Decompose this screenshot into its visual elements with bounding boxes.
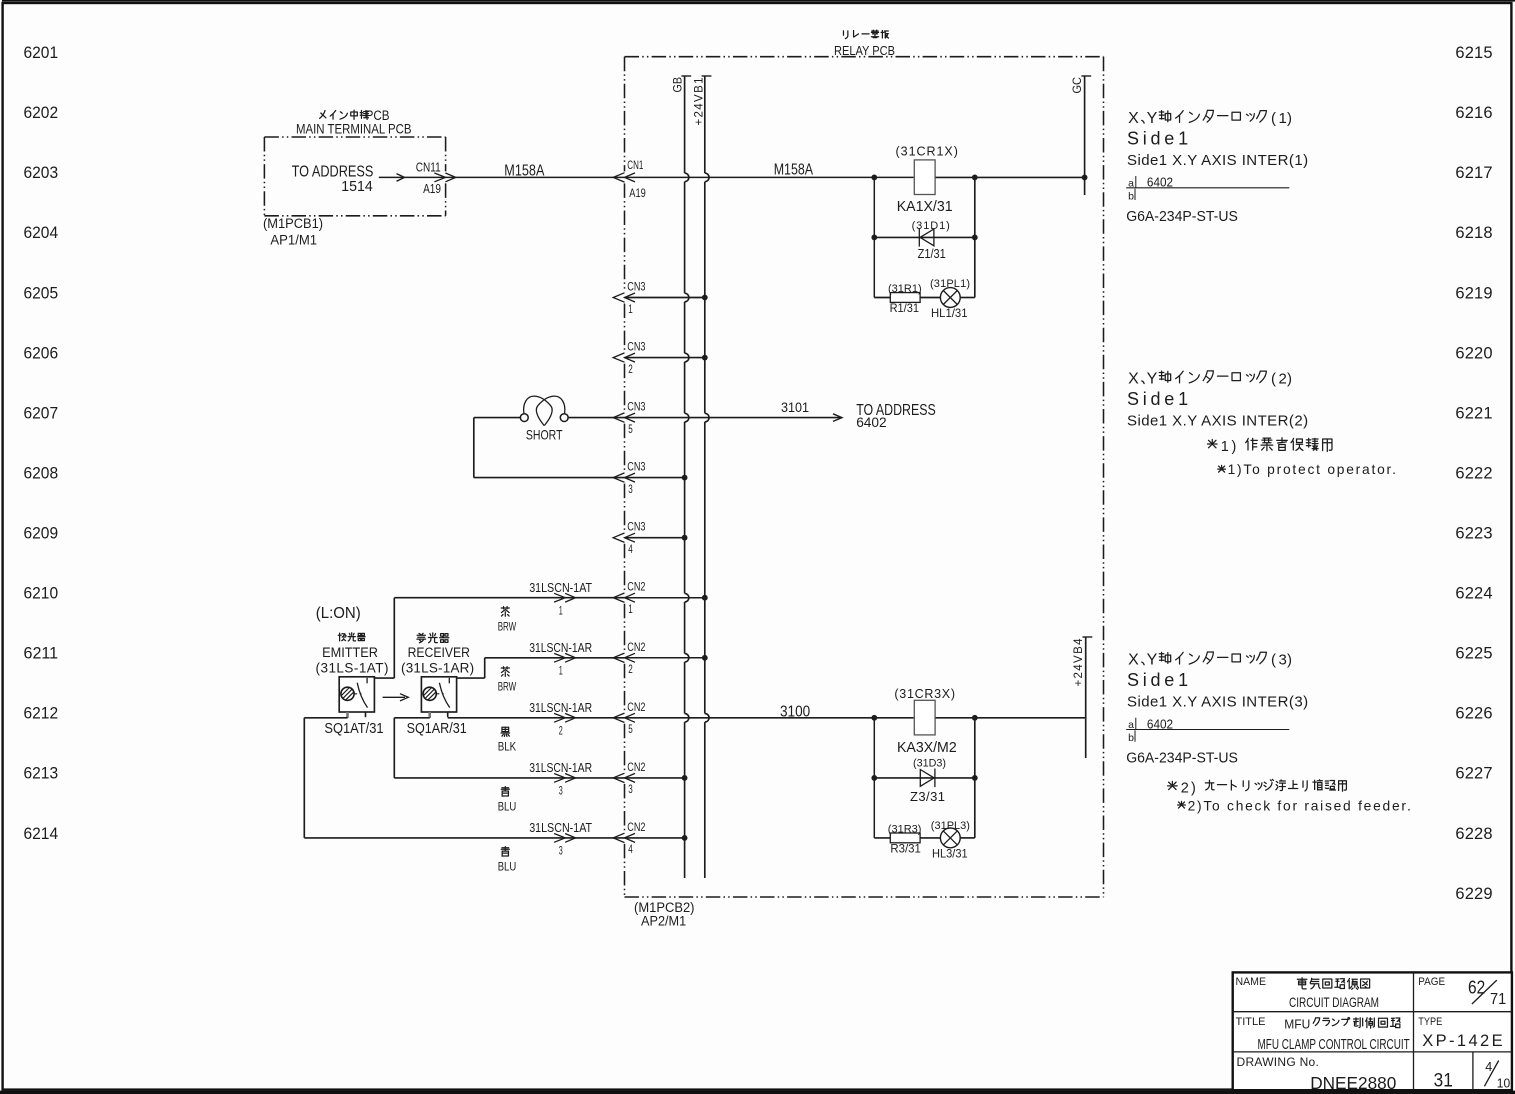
svg-text:6202: 6202 <box>24 104 59 122</box>
svg-text:CN3: CN3 <box>627 522 645 534</box>
svg-text:+24VB1: +24VB1 <box>694 78 706 126</box>
svg-text:(31LS-1AT): (31LS-1AT) <box>316 661 389 676</box>
svg-text:b: b <box>1128 190 1134 202</box>
svg-text:Z3/31: Z3/31 <box>910 789 945 804</box>
svg-text:+24VB4: +24VB4 <box>1073 638 1085 687</box>
svg-text:(31CR3X): (31CR3X) <box>894 687 955 701</box>
svg-text:BLU: BLU <box>498 862 517 874</box>
svg-text:3: 3 <box>628 784 633 796</box>
svg-text:G6A-234P-ST-US: G6A-234P-ST-US <box>1126 209 1238 225</box>
svg-text:AP2/M1: AP2/M1 <box>641 913 686 929</box>
svg-text:BRW: BRW <box>498 682 517 694</box>
svg-text:HL3/31: HL3/31 <box>932 847 968 861</box>
svg-text:X: X <box>1128 652 1139 669</box>
svg-text:1: 1 <box>628 304 633 316</box>
svg-text:6220: 6220 <box>1455 344 1492 362</box>
svg-text:2: 2 <box>1181 781 1189 797</box>
svg-text:31: 31 <box>1434 1070 1453 1091</box>
svg-text:6215: 6215 <box>1455 44 1492 62</box>
svg-text:6206: 6206 <box>24 344 59 362</box>
svg-text:GB: GB <box>673 77 685 93</box>
svg-text:6229: 6229 <box>1455 885 1492 903</box>
svg-text:Side1: Side1 <box>1127 389 1188 409</box>
svg-text:4: 4 <box>1485 1060 1492 1074</box>
svg-text:1)To protect operator.: 1)To protect operator. <box>1228 462 1396 477</box>
svg-text:CN2: CN2 <box>627 702 645 714</box>
svg-text:(31LS-1AR): (31LS-1AR) <box>401 661 474 676</box>
svg-text:EMITTER: EMITTER <box>322 645 378 660</box>
svg-text:Y: Y <box>1147 652 1158 669</box>
svg-text:1: 1 <box>559 666 563 678</box>
svg-text:b: b <box>1128 732 1134 744</box>
svg-text:6209: 6209 <box>24 525 59 543</box>
svg-text:TYPE: TYPE <box>1418 1016 1442 1028</box>
svg-text:CIRCUIT DIAGRAM: CIRCUIT DIAGRAM <box>1289 994 1379 1010</box>
svg-text:CN2: CN2 <box>627 762 645 774</box>
svg-text:(31R1): (31R1) <box>888 283 922 295</box>
svg-text:CN3: CN3 <box>627 462 645 474</box>
svg-text:CN1: CN1 <box>627 160 643 172</box>
svg-text:DNEE2880: DNEE2880 <box>1310 1073 1396 1093</box>
svg-text:GC: GC <box>1072 77 1084 94</box>
svg-text:CN3: CN3 <box>627 402 645 414</box>
svg-text:31LSCN-1AR: 31LSCN-1AR <box>529 760 592 775</box>
svg-text:31LSCN-1AR: 31LSCN-1AR <box>529 700 592 715</box>
svg-text:3101: 3101 <box>781 399 809 415</box>
svg-text:HL1/31: HL1/31 <box>931 306 968 320</box>
svg-text:(: ( <box>1271 370 1276 387</box>
svg-text:PAGE: PAGE <box>1418 976 1445 988</box>
svg-text:2: 2 <box>628 364 633 376</box>
svg-text:(L:ON): (L:ON) <box>316 605 361 622</box>
svg-text:CN3: CN3 <box>627 342 645 354</box>
svg-text:MAIN TERMINAL PCB: MAIN TERMINAL PCB <box>296 121 412 137</box>
svg-text:6216: 6216 <box>1455 104 1492 122</box>
svg-text:): ) <box>1287 652 1292 669</box>
svg-text:2: 2 <box>1279 370 1287 387</box>
svg-text:CN3: CN3 <box>627 282 645 294</box>
svg-text:6201: 6201 <box>24 44 59 62</box>
svg-text:2)To check for raised feeder.: 2)To check for raised feeder. <box>1188 798 1411 813</box>
svg-text:5: 5 <box>628 424 633 436</box>
svg-text:6221: 6221 <box>1455 404 1492 422</box>
svg-text:6212: 6212 <box>24 705 59 723</box>
svg-text:Side1 X.Y AXIS INTER(3): Side1 X.Y AXIS INTER(3) <box>1127 694 1308 711</box>
svg-text:(31R3): (31R3) <box>888 823 922 835</box>
svg-text:NAME: NAME <box>1236 976 1267 988</box>
svg-text:6207: 6207 <box>24 404 59 422</box>
svg-text:): ) <box>1287 370 1292 387</box>
svg-text:SQ1AR/31: SQ1AR/31 <box>407 721 467 737</box>
svg-text:6213: 6213 <box>24 765 59 783</box>
svg-text:X: X <box>1128 370 1139 387</box>
svg-text:AP1/M1: AP1/M1 <box>270 233 317 248</box>
svg-text:SHORT: SHORT <box>526 427 563 443</box>
svg-text:3: 3 <box>559 846 563 858</box>
svg-text:6211: 6211 <box>24 645 59 663</box>
svg-text:6226: 6226 <box>1455 705 1492 723</box>
svg-text:Side1: Side1 <box>1127 128 1188 148</box>
svg-text:6205: 6205 <box>24 284 59 302</box>
svg-text:Side1 X.Y AXIS INTER(1): Side1 X.Y AXIS INTER(1) <box>1127 152 1308 169</box>
svg-text:CN11: CN11 <box>416 160 441 175</box>
svg-text:(M1PCB1): (M1PCB1) <box>263 216 323 231</box>
svg-text:6203: 6203 <box>24 164 59 182</box>
svg-text:RELAY PCB: RELAY PCB <box>834 43 895 58</box>
svg-text:5: 5 <box>628 724 633 736</box>
svg-text:M158A: M158A <box>774 161 814 178</box>
svg-text:31LSCN-1AT: 31LSCN-1AT <box>529 580 592 595</box>
svg-text:71: 71 <box>1490 991 1506 1008</box>
svg-text:(: ( <box>1271 110 1276 127</box>
svg-text:Y: Y <box>1147 370 1158 387</box>
svg-text:2: 2 <box>559 726 563 738</box>
svg-text:1514: 1514 <box>341 178 372 195</box>
svg-text:KA3X/M2: KA3X/M2 <box>897 739 957 756</box>
svg-text:CN2: CN2 <box>627 642 645 654</box>
svg-text:6219: 6219 <box>1455 284 1492 302</box>
svg-text:G6A-234P-ST-US: G6A-234P-ST-US <box>1126 751 1238 767</box>
svg-text:1: 1 <box>1279 110 1287 127</box>
svg-text:6208: 6208 <box>24 464 59 482</box>
svg-text:): ) <box>1232 439 1237 455</box>
svg-text:R3/31: R3/31 <box>890 841 921 855</box>
svg-text:X: X <box>1128 110 1139 127</box>
svg-text:6225: 6225 <box>1455 645 1492 663</box>
svg-text:Z1/31: Z1/31 <box>918 246 946 261</box>
svg-text:6223: 6223 <box>1455 525 1492 543</box>
svg-text:6204: 6204 <box>24 224 59 242</box>
svg-text:Side1: Side1 <box>1127 670 1188 690</box>
svg-text:(31D1): (31D1) <box>912 220 950 232</box>
svg-text:6214: 6214 <box>24 825 59 843</box>
svg-text:): ) <box>1287 110 1292 127</box>
svg-text:M158A: M158A <box>504 163 545 180</box>
svg-text:BLK: BLK <box>498 742 517 754</box>
svg-text:CN2: CN2 <box>627 822 645 834</box>
svg-text:A19: A19 <box>629 188 646 200</box>
svg-text:6224: 6224 <box>1455 585 1492 603</box>
svg-text:6210: 6210 <box>24 585 59 603</box>
svg-text:6222: 6222 <box>1455 464 1492 482</box>
svg-text:3: 3 <box>559 786 563 798</box>
svg-text:(31CR1X): (31CR1X) <box>896 144 958 158</box>
svg-text:1: 1 <box>559 606 563 618</box>
svg-text:6402: 6402 <box>856 414 887 430</box>
svg-text:31LSCN-1AT: 31LSCN-1AT <box>529 820 592 835</box>
svg-text:4: 4 <box>628 844 633 856</box>
svg-text:(: ( <box>1271 652 1276 669</box>
svg-text:10: 10 <box>1497 1076 1510 1090</box>
svg-text:RECEIVER: RECEIVER <box>408 645 471 660</box>
svg-text:BRW: BRW <box>498 621 517 633</box>
svg-text:6227: 6227 <box>1455 765 1492 783</box>
svg-text:CN2: CN2 <box>627 582 645 594</box>
svg-text:DRAWING No.: DRAWING No. <box>1237 1055 1319 1069</box>
svg-text:2: 2 <box>628 664 633 676</box>
svg-text:(31PL1): (31PL1) <box>930 278 970 290</box>
svg-text:MFU CLAMP CONTROL CIRCUIT: MFU CLAMP CONTROL CIRCUIT <box>1258 1036 1410 1053</box>
svg-text:3: 3 <box>628 484 633 496</box>
svg-text:6218: 6218 <box>1455 224 1492 242</box>
svg-text:(31PL3): (31PL3) <box>931 820 970 832</box>
svg-text:31LSCN-1AR: 31LSCN-1AR <box>529 640 592 655</box>
svg-text:BLU: BLU <box>498 802 517 814</box>
svg-text:1: 1 <box>1221 439 1229 455</box>
svg-text:3: 3 <box>1279 652 1287 669</box>
svg-text:TITLE: TITLE <box>1236 1016 1266 1028</box>
svg-text:Y: Y <box>1147 110 1158 127</box>
svg-text:): ) <box>1191 781 1196 797</box>
svg-text:6228: 6228 <box>1455 825 1492 843</box>
svg-text:SQ1AT/31: SQ1AT/31 <box>324 721 383 737</box>
svg-text:1: 1 <box>628 604 633 616</box>
svg-text:A19: A19 <box>423 181 441 196</box>
svg-text:KA1X/31: KA1X/31 <box>897 198 953 215</box>
svg-text:MFU: MFU <box>1284 1018 1310 1032</box>
svg-text:Side1 X.Y AXIS INTER(2): Side1 X.Y AXIS INTER(2) <box>1127 413 1308 430</box>
svg-text:(31D3): (31D3) <box>913 757 946 769</box>
svg-text:R1/31: R1/31 <box>890 301 920 315</box>
svg-text:6217: 6217 <box>1455 164 1492 182</box>
svg-text:4: 4 <box>628 544 633 556</box>
svg-text:3100: 3100 <box>780 704 811 721</box>
